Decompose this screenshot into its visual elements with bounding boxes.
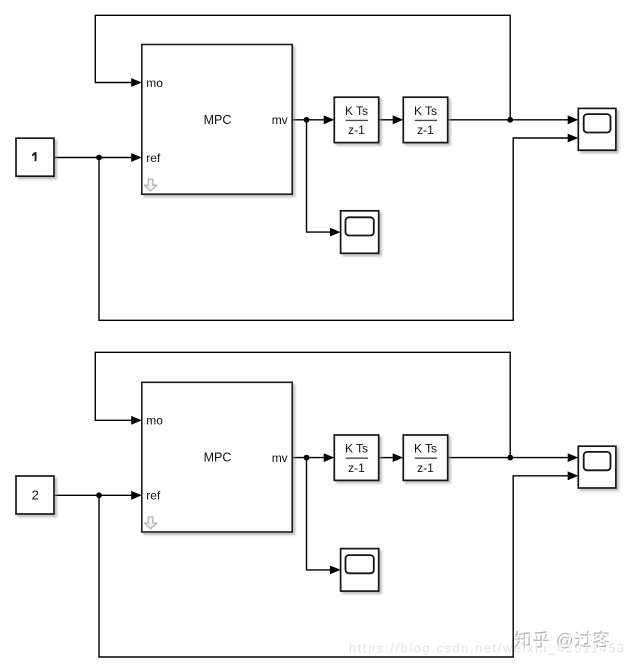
wire: integrator 2 output to scope input 1 A bbox=[448, 119, 569, 121]
wire: integrator 1 to integrator 2 A bbox=[379, 119, 394, 121]
discrete integrator 2 A (K Ts / z-1) bbox=[403, 97, 447, 142]
svg-text:ref: ref bbox=[146, 489, 161, 503]
svg-text:K Ts: K Ts bbox=[345, 104, 368, 118]
node: junction below constant A bbox=[96, 155, 102, 161]
wire: constant to ref port A bbox=[54, 157, 132, 159]
node: junction on mv wire B bbox=[304, 455, 310, 461]
wire: integrator 2 output to scope input 1 B bbox=[448, 457, 569, 459]
svg-text:2: 2 bbox=[32, 487, 39, 502]
svg-text:K Ts: K Ts bbox=[414, 104, 437, 118]
constant block 2 bbox=[16, 476, 54, 514]
icon: gray down-arrow inside MPC block A bbox=[144, 179, 156, 191]
svg-text:mo: mo bbox=[146, 76, 163, 90]
wire: feedback from output junction up over to mo port B bbox=[95, 352, 510, 457]
icon: gray down-arrow inside MPC block B bbox=[144, 517, 156, 529]
wire: mv tap down to small scope A bbox=[307, 120, 332, 232]
discrete integrator 1 B (K Ts / z-1) bbox=[334, 435, 378, 480]
svg-text:MPC: MPC bbox=[204, 113, 232, 127]
svg-text:ref: ref bbox=[146, 151, 161, 165]
scope block (right, 2 inputs) B bbox=[578, 446, 616, 488]
wire: mv tap down to small scope B bbox=[307, 458, 332, 570]
svg-text:K Ts: K Ts bbox=[345, 442, 368, 456]
node: output junction A bbox=[507, 117, 513, 123]
discrete integrator 1 A (K Ts / z-1) bbox=[334, 97, 378, 142]
constant block 1 bbox=[16, 138, 54, 176]
svg-text:z-1: z-1 bbox=[348, 123, 365, 137]
MPC controller block UA bbox=[142, 45, 292, 195]
svg-text:z-1: z-1 bbox=[348, 461, 365, 475]
MPC controller block UB bbox=[142, 382, 292, 532]
wire: integrator 1 to integrator 2 B bbox=[379, 457, 394, 459]
scope block (right, 2 inputs) A bbox=[578, 108, 616, 150]
wire: mv output to integrator 1 A bbox=[292, 119, 325, 121]
node: junction below constant B bbox=[96, 492, 102, 498]
svg-text:z-1: z-1 bbox=[417, 461, 434, 475]
scope block (small, mv monitor) B bbox=[341, 549, 379, 592]
node: output junction B bbox=[507, 455, 513, 461]
svg-text:mv: mv bbox=[272, 451, 288, 465]
wire: mv output to integrator 1 B bbox=[292, 457, 325, 459]
svg-text:mv: mv bbox=[272, 113, 288, 127]
scope block (small, mv monitor) A bbox=[341, 211, 379, 254]
wire: ref signal down along bottom to scope input 2 A bbox=[99, 138, 569, 320]
svg-text:MPC: MPC bbox=[204, 451, 232, 465]
wire: feedback from output junction up over to mo port A bbox=[95, 15, 510, 120]
node: junction on mv wire A bbox=[304, 117, 310, 123]
wire: ref signal down along bottom to scope input 2 B bbox=[99, 476, 569, 657]
svg-text:知乎 @过客: 知乎 @过客 bbox=[515, 631, 611, 651]
discrete integrator 2 B (K Ts / z-1) bbox=[403, 435, 447, 480]
svg-text:z-1: z-1 bbox=[417, 123, 434, 137]
svg-text:K Ts: K Ts bbox=[414, 442, 437, 456]
svg-text:mo: mo bbox=[146, 414, 163, 428]
wire: constant to ref port B bbox=[54, 494, 132, 496]
